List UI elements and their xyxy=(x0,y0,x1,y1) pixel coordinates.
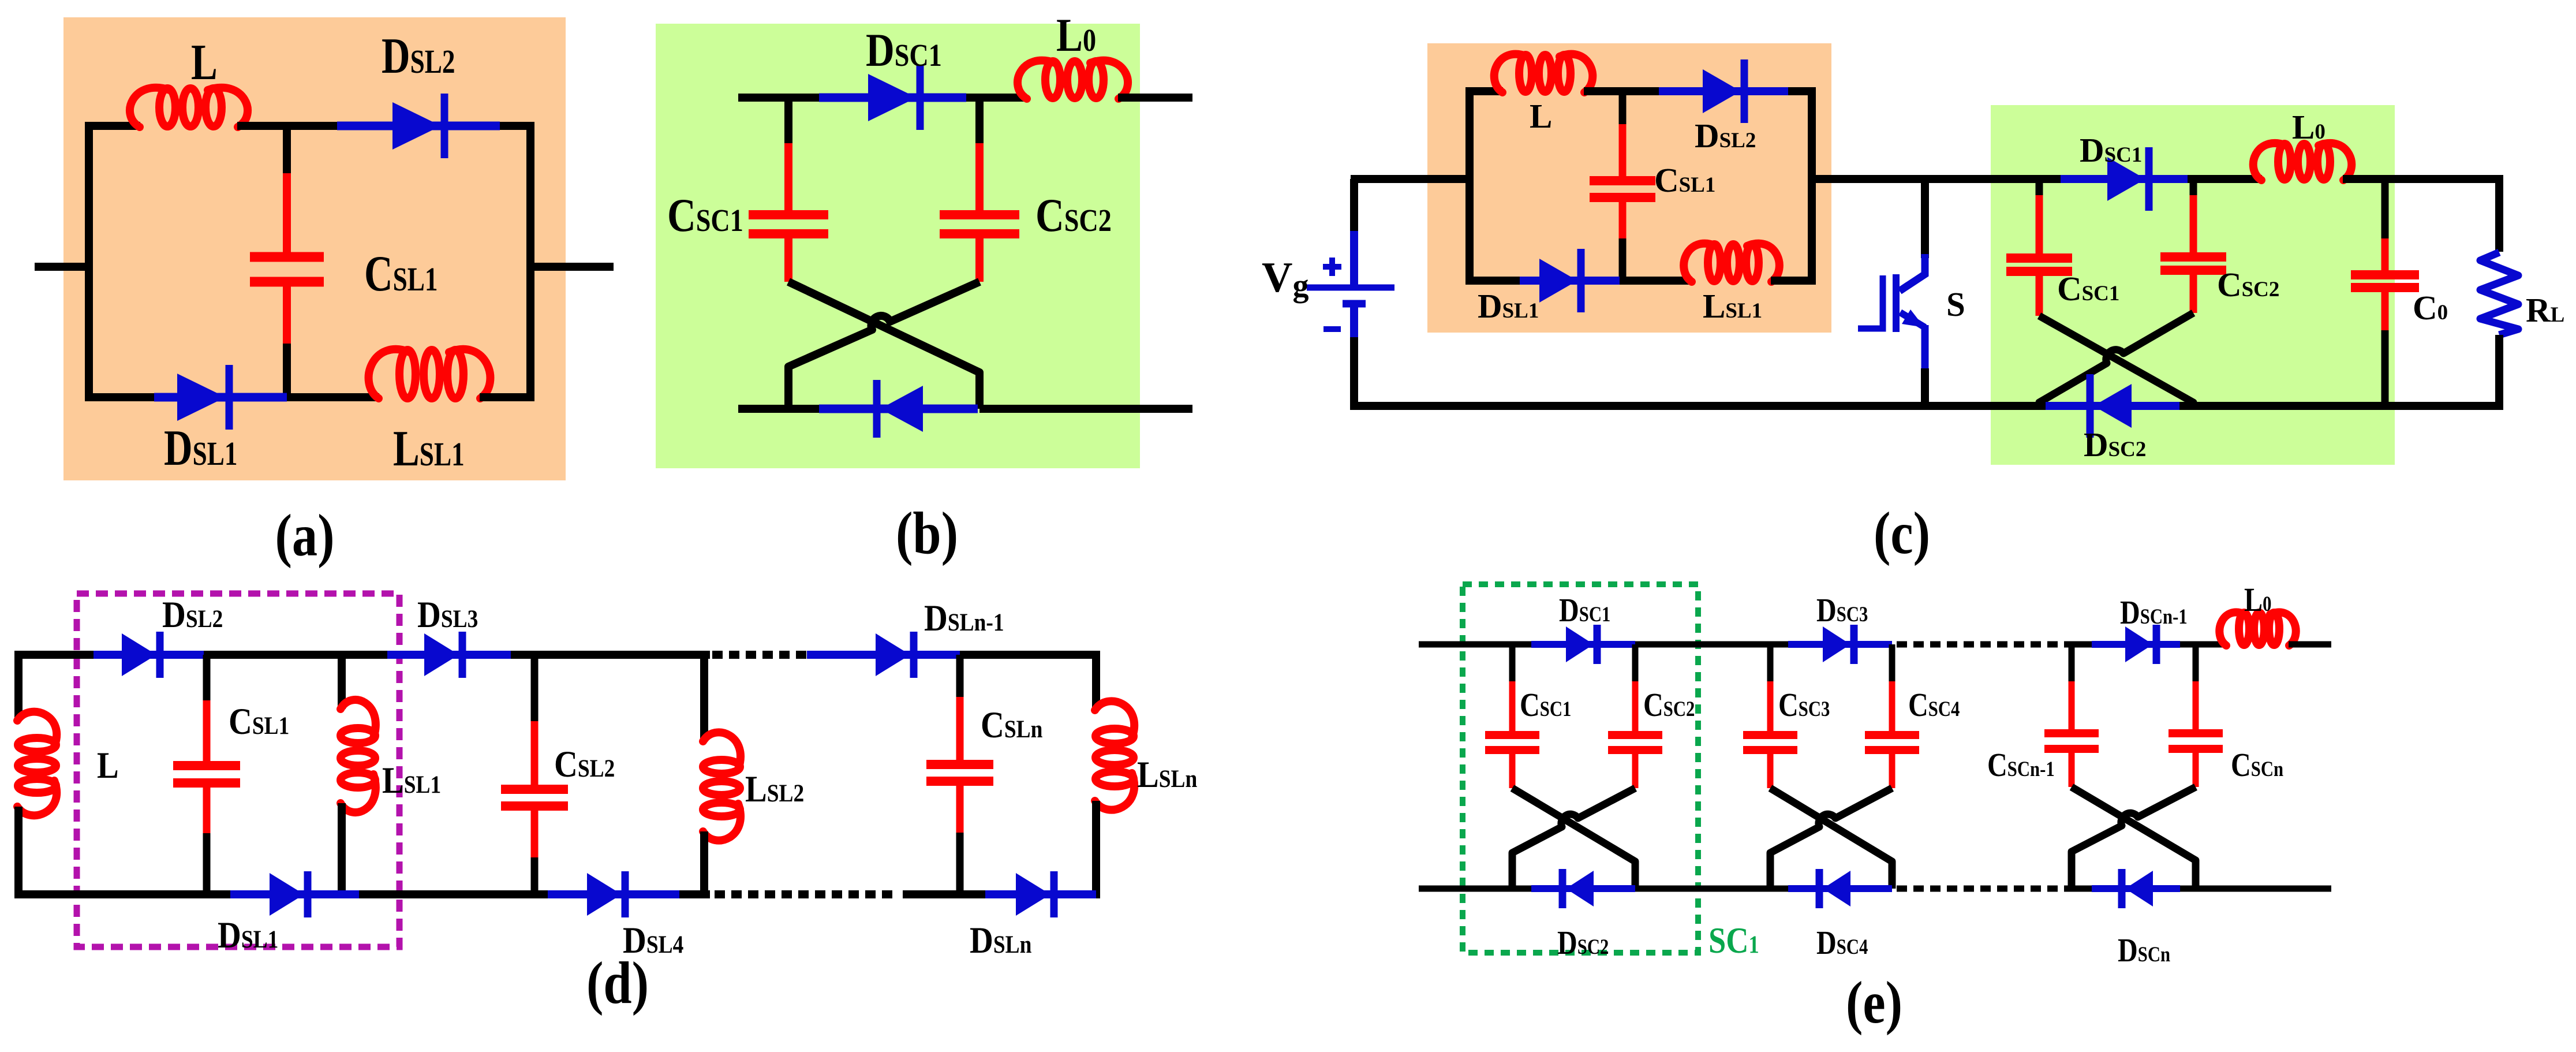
cross-coupling wires cell3 (e) xyxy=(2072,787,2196,889)
diode DSCn-1 (e) xyxy=(2092,641,2180,648)
wire top rail 3 (d) xyxy=(511,651,710,659)
wire bottom rail 3 (e) xyxy=(2072,886,2092,892)
wire top rail mid (b) xyxy=(966,94,1027,102)
highlight box SL cell (c) xyxy=(1427,43,1831,333)
diode DSL3 (d) xyxy=(387,651,511,659)
diode DSCn (e) xyxy=(2092,885,2180,892)
wire top rail 3 (e) xyxy=(2072,641,2092,648)
diode DSC1 (c) xyxy=(2061,175,2188,183)
wire LSLn vertical bottom (d) xyxy=(1092,801,1100,898)
diode DSC2 (b) xyxy=(819,405,978,413)
capacitor CSC2 (c) xyxy=(2190,179,2197,195)
capacitor CSC3 (e) xyxy=(1767,644,1774,681)
wire left vertical (a) xyxy=(85,122,93,401)
wire SL top rail mid (c) xyxy=(1584,87,1659,95)
capacitor CSC1 (b) xyxy=(784,98,792,143)
wire top rail 1 (d) xyxy=(18,651,94,659)
inductor L (a) xyxy=(130,88,170,127)
dashed box SL1 cell (d) xyxy=(77,594,399,947)
switch wire top (c) xyxy=(1921,179,1929,258)
wire left stub (a) xyxy=(35,263,89,271)
wire LSL1 vertical top (d) xyxy=(338,651,346,709)
cross-coupling wires cell1 (e) xyxy=(1512,788,1635,889)
wire top rail 5 (e) xyxy=(2289,641,2331,648)
cross-coupling wires (c) xyxy=(2039,316,2193,406)
wire top rail 1 (e) xyxy=(1419,641,1531,648)
capacitor C0 (c) xyxy=(2381,179,2389,238)
svg-text:S: S xyxy=(1946,285,1965,323)
wire top rail right (b) xyxy=(1118,94,1192,102)
wire bottom rail dashed (d) xyxy=(715,890,893,898)
wire SL right vertical (c) xyxy=(1808,87,1816,285)
battery Vg top wire (c) xyxy=(1350,179,1358,234)
svg-text:L: L xyxy=(191,35,218,91)
wire bottom rail 2 (d) xyxy=(359,890,548,898)
diode DSLn (d) xyxy=(985,890,1096,898)
cross-coupling wires cell2 (e) xyxy=(1770,788,1892,889)
wire left vertical bottom (d) xyxy=(14,807,23,898)
wire bottom rail right (c) xyxy=(2179,402,2503,410)
cross-coupling wires (b) xyxy=(788,282,979,409)
wire input rail (c) xyxy=(1351,175,1470,183)
wire SL top rail left (c) xyxy=(1470,87,1503,95)
wire top rail left (a) xyxy=(89,122,140,130)
transistor S IGBT (c) xyxy=(1900,254,1925,291)
wire top rail dashed (e) xyxy=(1897,641,2072,648)
wire SL bottom rail mid (c) xyxy=(1620,277,1692,285)
inductor LSL2 (d) xyxy=(703,732,741,840)
capacitor CSCn-1 (e) xyxy=(2069,644,2075,681)
diode DSL2 (d) xyxy=(94,651,204,659)
wire right vertical (a) xyxy=(526,122,534,401)
wire SL bottom rail right (c) xyxy=(1771,277,1812,285)
battery Vg bottom wire (c) xyxy=(1350,337,1358,410)
diode DSC3 (e) xyxy=(1788,641,1892,648)
wire top rail 2 (d) xyxy=(204,651,387,659)
wire top rail dashed (d) xyxy=(712,651,809,659)
resistor RL (c) xyxy=(2495,179,2503,252)
wire bottom rail 1 (d) xyxy=(18,890,230,898)
capacitor CSL2 (d) xyxy=(531,655,539,721)
wire bottom rail left (a) xyxy=(89,393,154,401)
wire SL bottom rail left (c) xyxy=(1470,277,1520,285)
capacitor CSC2 (b) xyxy=(975,98,984,143)
wire top rail (b) xyxy=(738,94,819,102)
wire top rail 2 (e) xyxy=(1635,641,1788,648)
inductor LSL1 (a) xyxy=(369,349,410,398)
wire top rail 4 (e) xyxy=(2180,641,2227,648)
inductor LSL1 (c) xyxy=(1684,244,1716,282)
wire bottom rail 1 (e) xyxy=(1419,886,1531,892)
inductor LSLn (d) xyxy=(1095,701,1134,809)
svg-text:(c): (c) xyxy=(1874,499,1930,566)
battery Vg (c) xyxy=(1350,231,1358,288)
capacitor CSC2 (e) xyxy=(1632,644,1639,681)
diode DSL1 (a) xyxy=(154,393,287,402)
wire right stub (a) xyxy=(530,263,614,271)
wire bottom rail 4 (e) xyxy=(2180,886,2331,892)
dashed box SC1 cell (e) xyxy=(1463,584,1698,953)
capacitor CSLn (d) xyxy=(956,655,964,697)
inductor L0 (b) xyxy=(1018,61,1055,99)
wire bottom rail 3 (d) xyxy=(679,890,710,898)
wire bottom rail right (a) xyxy=(480,393,530,401)
wire bottom rail (c) xyxy=(1354,402,2047,410)
wire bottom rail 4 (d) xyxy=(903,890,985,898)
inductor L (d) xyxy=(17,712,57,816)
diode DSL1 (d) xyxy=(230,890,359,898)
svg-text:(b): (b) xyxy=(896,499,958,566)
wire rail DSC1-L0 (c) xyxy=(2188,175,2262,183)
wire bottom rail 2 (e) xyxy=(1635,886,1788,892)
inductor L (c) xyxy=(1494,54,1527,92)
diode DSL1 (c) xyxy=(1520,277,1620,285)
capacitor CSL1 (d) xyxy=(203,655,211,700)
svg-text:L: L xyxy=(1530,97,1552,135)
capacitor CSCn (e) xyxy=(2193,644,2199,681)
wire SL top rail right (c) xyxy=(1788,87,1812,95)
inductor LSL1 (d) xyxy=(341,700,376,812)
svg-text:(d): (d) xyxy=(586,949,649,1016)
wire mid rail (c) xyxy=(1812,175,2062,183)
highlight box SL cell (a) xyxy=(63,17,566,480)
diode DSLn-1 (d) xyxy=(807,651,960,659)
inductor L0 (e) xyxy=(2219,612,2245,646)
wire LSLn vertical top (d) xyxy=(1092,651,1100,710)
capacitor CSC4 (e) xyxy=(1889,644,1895,681)
switch wire bottom (c) xyxy=(1921,368,1929,406)
wire bottom rail right (b) xyxy=(979,405,1192,413)
diode DSL2 (c) xyxy=(1659,87,1788,95)
inductor L0 (c) xyxy=(2253,143,2286,180)
diode DSC1 (b) xyxy=(819,94,966,102)
capacitor CSC1 (c) xyxy=(2036,179,2043,195)
wire LSL1 vertical bottom (d) xyxy=(338,803,346,898)
diode DSC2 (e) xyxy=(1531,885,1635,892)
diode DSL4 (d) xyxy=(548,890,679,898)
wire top rail 4 (d) xyxy=(960,651,1096,659)
capacitor CSL1 (c) xyxy=(1619,91,1627,124)
wire rail L0-C0 (c) xyxy=(2343,175,2503,183)
diode DSC1 (e) xyxy=(1531,641,1635,648)
wire left vertical top (d) xyxy=(14,651,23,721)
svg-text:(e): (e) xyxy=(1846,969,1902,1035)
wire bottom rail left (b) xyxy=(738,405,819,413)
svg-text:(a): (a) xyxy=(275,502,334,568)
wire LSL2 vertical bottom (d) xyxy=(700,831,708,898)
svg-text:L: L xyxy=(97,745,119,786)
wire top rail mid (a) xyxy=(237,122,337,130)
capacitor CSL1 (a) xyxy=(283,126,291,173)
highlight box SC cell (c) xyxy=(1991,105,2395,465)
wire bottom rail dashed (e) xyxy=(1897,886,2072,892)
diode DSC4 (e) xyxy=(1788,885,1892,892)
capacitor CSC1 (e) xyxy=(1509,644,1516,681)
diode DSL2 (a) xyxy=(337,122,500,130)
wire bottom rail mid (a) xyxy=(287,393,379,401)
wire LSL2 vertical top (d) xyxy=(700,651,708,741)
wire top rail right (a) xyxy=(500,122,530,130)
diode DSC2 (c) xyxy=(2046,402,2179,410)
wire SL left vertical (c) xyxy=(1465,87,1474,285)
highlight box SC cell (b) xyxy=(656,24,1140,468)
